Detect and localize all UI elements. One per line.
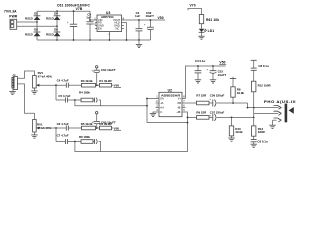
diode D2 RS1D xyxy=(25,28,40,37)
svg-text:D4: D4 xyxy=(54,11,58,15)
node V50 (rail label) xyxy=(219,61,226,65)
resistor R9 22R xyxy=(196,111,212,120)
svg-text:49.9k: 49.9k xyxy=(237,91,245,95)
ground (jack sleeve) xyxy=(269,120,275,128)
capacitor C9 0.1u xyxy=(251,140,268,145)
diode D4 RS1D xyxy=(46,11,60,20)
wire op-amp B feedback return xyxy=(75,112,188,152)
svg-text:C56 220uF: C56 220uF xyxy=(210,94,225,98)
capacitor C1 1uF xyxy=(86,11,93,41)
resistor R12 100R xyxy=(252,81,272,126)
diode D3 RS1D xyxy=(46,28,60,37)
diode D1 RS1D xyxy=(25,11,40,20)
resistor R7 22R xyxy=(196,94,212,105)
op-amp U2 AD8532AR xyxy=(156,89,186,117)
wire bottom ground rail xyxy=(37,39,150,41)
wire top rail V7B xyxy=(37,10,90,12)
capacitor C2 1uF xyxy=(135,11,143,41)
capacitor C56 220uF xyxy=(209,94,247,107)
capacitor C62 10uFT xyxy=(144,11,154,40)
svg-text:R6 180k: R6 180k xyxy=(79,135,90,139)
resistor R3b 49.9R (bias feed) xyxy=(99,79,113,87)
regulator U3 ADP7104 xyxy=(94,11,124,36)
svg-text:D2: D2 xyxy=(34,28,38,32)
resistor R5b 49.9R (bias feed) xyxy=(99,122,113,130)
wire row A to row B branch xyxy=(55,85,57,100)
ground (C8 top bar) xyxy=(251,60,257,68)
ground (pot RV1b) xyxy=(31,132,37,138)
node V7B xyxy=(76,7,83,11)
wire pot RV1b wiper row D xyxy=(39,127,67,129)
resistor R10 49.9k xyxy=(229,117,243,138)
wire ch2 to jack ring xyxy=(254,112,279,114)
ground (input connector) xyxy=(9,88,15,95)
ground (C9) xyxy=(251,144,257,147)
resistor R4 180k xyxy=(79,90,94,101)
wire U3 pin (HLD) to ground rail xyxy=(122,23,128,41)
svg-text:330R: 330R xyxy=(258,130,266,134)
wire op-amp row 2 output xyxy=(187,117,197,119)
capacitor C4 4.7uF xyxy=(57,79,82,88)
LED LD1 xyxy=(199,29,214,33)
svg-text:V+: V+ xyxy=(178,97,182,101)
wire U3 VOUT to V50 xyxy=(122,19,166,21)
ground (LED) xyxy=(198,32,204,39)
wire PWR pin1 to bridge left column xyxy=(17,21,38,23)
capacitor C65 10uFT (bias) xyxy=(92,112,116,129)
svg-text:7V/0.3A: 7V/0.3A xyxy=(4,10,17,14)
potentiometer RV1a 47k xyxy=(33,71,53,88)
capacitor (gain) arc ch2 xyxy=(95,139,101,151)
capacitor (gain) arc ch1 xyxy=(95,98,101,106)
resistor R8 49.9k xyxy=(230,77,245,103)
svg-text:C64 10uFT: C64 10uFT xyxy=(101,68,116,72)
resistor R6 180k xyxy=(79,135,94,143)
svg-text:R2 49.9R: R2 49.9R xyxy=(99,122,112,126)
svg-text:V50: V50 xyxy=(114,84,120,88)
ground (C3) xyxy=(195,80,201,83)
node V50 (regulator output) xyxy=(158,16,164,20)
svg-text:C9 0.1u: C9 0.1u xyxy=(257,140,268,144)
wire op-amp lower route xyxy=(147,122,188,124)
capacitor C5 4.7uF xyxy=(58,94,81,103)
wire ch1 to jack tip xyxy=(247,103,279,109)
svg-text:C5 4.7uF: C5 4.7uF xyxy=(58,94,70,98)
capacitor C53 10uFT xyxy=(207,65,227,80)
ground (power rail) xyxy=(136,40,142,48)
node V50 (row D) xyxy=(114,126,122,130)
wire bridge right column xyxy=(56,10,58,41)
wire pot RV1a wiper row A xyxy=(39,84,67,86)
svg-text:10uFT: 10uFT xyxy=(218,73,227,77)
svg-text:-IB: -IB xyxy=(177,106,181,110)
svg-text:R12 100R: R12 100R xyxy=(258,83,272,87)
svg-text:1uF: 1uF xyxy=(135,14,140,18)
svg-text:C61 1000uF/16V/FC: C61 1000uF/16V/FC xyxy=(57,3,91,7)
svg-text:R4 180k: R4 180k xyxy=(79,90,90,94)
svg-text:C7 4.7uF: C7 4.7uF xyxy=(57,134,69,138)
svg-text:R7 22R: R7 22R xyxy=(196,94,207,98)
svg-text:PWR: PWR xyxy=(9,15,18,19)
svg-text:C8 0.1u: C8 0.1u xyxy=(258,64,269,68)
svg-text:RS1D: RS1D xyxy=(25,17,33,21)
wire row D to row E branch xyxy=(55,128,57,142)
svg-text:D1: D1 xyxy=(34,11,38,15)
svg-text:R9 22R: R9 22R xyxy=(196,111,207,115)
svg-text:+IA: +IA xyxy=(160,106,164,110)
resistor R3 49.9k xyxy=(81,79,100,87)
wire bridge left column xyxy=(36,11,38,40)
wire PWR pin2 to bridge right column xyxy=(17,25,58,27)
wire V+ riser to V50 rail xyxy=(186,66,226,99)
capacitor C7 4.7uF xyxy=(57,134,81,144)
svg-text:V7B: V7B xyxy=(76,7,83,11)
svg-text:C57 220uF: C57 220uF xyxy=(210,111,225,115)
svg-text:RS1D: RS1D xyxy=(25,33,33,37)
svg-text:47 kA 40%: 47 kA 40% xyxy=(38,74,53,78)
connector PHO A(US-II headphone jack xyxy=(264,100,296,122)
svg-text:+IB: +IB xyxy=(176,110,180,114)
svg-text:R1 49.9R: R1 49.9R xyxy=(99,79,112,83)
connector AF input xyxy=(12,73,18,90)
wire row C (op-amp A input) xyxy=(75,100,147,106)
ground (pot RV1a) xyxy=(31,88,37,94)
svg-text:C4 4.7uF: C4 4.7uF xyxy=(57,79,69,83)
wire U3 pad to ground rail xyxy=(109,32,111,41)
svg-text:EN: EN xyxy=(98,26,102,30)
svg-text:U3: U3 xyxy=(106,11,110,15)
svg-text:D3: D3 xyxy=(54,28,58,32)
svg-text:NC: NC xyxy=(116,26,120,30)
svg-text:V70: V70 xyxy=(190,3,196,7)
capacitor C57 220uF xyxy=(209,111,254,121)
svg-text:1uF: 1uF xyxy=(86,16,91,20)
node V70 (LED feed) xyxy=(188,3,202,14)
wire op-amp A feedback riser xyxy=(146,98,155,123)
wire row E xyxy=(56,141,65,143)
svg-text:-IA: -IA xyxy=(160,101,164,105)
capacitor C64 10uFT (bias) xyxy=(92,66,116,86)
svg-text:RS1D: RS1D xyxy=(46,33,54,37)
ground (op-amp V-) xyxy=(150,112,156,117)
svg-text:V50: V50 xyxy=(158,16,164,20)
resistor R61 10k xyxy=(199,15,219,29)
svg-text:49.9k: 49.9k xyxy=(235,130,243,134)
capacitor C6 4.7uF xyxy=(57,122,82,131)
svg-text:V50: V50 xyxy=(219,61,225,65)
text 7V/0.3A rating xyxy=(4,10,17,14)
svg-text:V50: V50 xyxy=(114,126,120,130)
svg-text:RS1D: RS1D xyxy=(46,17,54,21)
resistor R5 49.9k xyxy=(81,122,100,130)
svg-text:ADP7104: ADP7104 xyxy=(101,15,114,19)
capacitor C61 1000uF/16V/FC xyxy=(57,3,91,40)
svg-text:C6 4.7uF: C6 4.7uF xyxy=(57,122,69,126)
wire op-amp OB output row xyxy=(186,102,197,104)
svg-text:OB: OB xyxy=(177,101,181,105)
capacitor C8 0.1u xyxy=(251,64,269,81)
svg-text:V-: V- xyxy=(160,110,163,114)
svg-text:C3 0.1u: C3 0.1u xyxy=(195,59,206,63)
svg-text:R3 49.9k: R3 49.9k xyxy=(81,79,93,83)
wire connector to pot RV1a top xyxy=(18,71,35,78)
svg-text:PHO A(US-III: PHO A(US-III xyxy=(264,100,296,104)
ground (R10) xyxy=(228,138,234,141)
svg-text:R61 10k: R61 10k xyxy=(206,18,219,22)
svg-text:OA: OA xyxy=(160,97,164,101)
svg-text:LD1: LD1 xyxy=(208,29,215,33)
wire connector to pot RV1b top xyxy=(18,84,35,120)
ground (C53) xyxy=(210,80,216,83)
connector PWR xyxy=(9,15,18,30)
capacitor C3 0.1u xyxy=(195,59,206,80)
potentiometer RV1b 47k xyxy=(33,120,52,133)
wire row B xyxy=(56,99,65,101)
wire C1 to U3 VIN xyxy=(90,19,97,21)
node V50 (row A) xyxy=(114,84,122,88)
resistor R13 330R xyxy=(252,126,266,140)
svg-text:10uFT: 10uFT xyxy=(145,14,154,18)
